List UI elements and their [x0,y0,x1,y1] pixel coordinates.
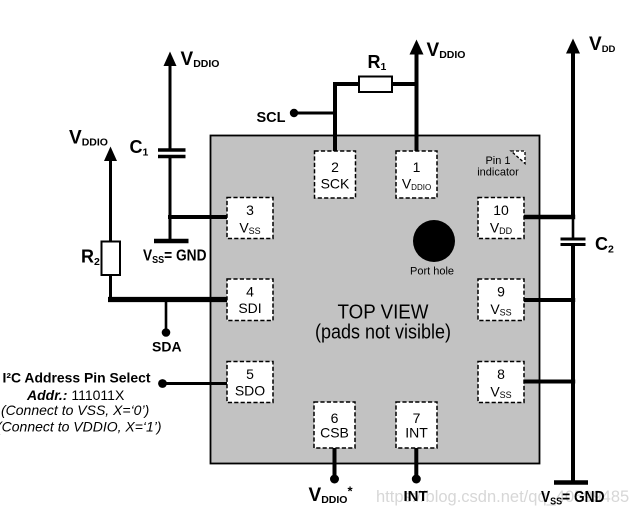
pin 6 CSB [314,402,355,448]
power VDDIO (pin 1 supply) [415,51,419,151]
svg-text:1: 1 [413,159,421,175]
pin 2 SCK [315,151,356,198]
svg-text:Addr.: 111011X: Addr.: 111011X [26,387,125,403]
pin 6 stub / node VDDIO* [333,448,337,477]
wire pin 8 [523,380,575,384]
svg-text:SDI: SDI [238,300,261,316]
pin 4 SDI [227,279,273,321]
pin 10 VDD [478,198,524,239]
ground VSS=GND (left) [154,239,189,243]
pin 5 SDO [227,362,273,403]
wire VDD to C2 [572,217,575,238]
wire R2 to pin 4 [109,275,112,302]
svg-text:5: 5 [246,366,254,382]
svg-text:2: 2 [331,159,339,175]
chip body (TOP VIEW) [211,136,540,464]
pin 8 VSS [478,362,524,403]
capacitor C1 [158,148,186,151]
svg-text:SCK: SCK [321,176,350,192]
svg-text:(pads not visible): (pads not visible) [315,321,451,344]
wire pin 9 [523,298,575,302]
ground VSS=GND (right) [554,480,588,484]
node SDA [165,300,168,331]
svg-text:SDO: SDO [235,383,265,399]
resistor R1 [359,77,392,93]
capacitor C2 [561,238,586,241]
wire R1 right lead [391,82,418,86]
svg-text:INT: INT [405,425,428,441]
power VDDIO (C1 branch) [169,63,172,149]
svg-text:8: 8 [497,366,505,382]
wire C2 to ground [571,246,575,481]
wire SCL to riser [294,112,336,115]
wire R1 left lead [333,82,360,86]
svg-text:(Connect to VDDIO, X=‘1’): (Connect to VDDIO, X=‘1’) [0,419,162,435]
svg-text:I²C Address Pin Select: I²C Address Pin Select [3,370,151,386]
pin 9 VSS [478,279,524,321]
port hole [413,220,455,262]
svg-text:INT: INT [404,488,428,505]
svg-text:Port hole: Port hole [410,266,454,278]
svg-text:CSB: CSB [320,425,349,441]
wire riser to pin 2 [333,84,337,151]
pin 7 stub / node INT [414,448,418,477]
pin 3 VSS [227,198,273,239]
svg-text:4: 4 [246,284,254,300]
pin 7 INT [396,402,437,448]
wire pin 10 to VDD [523,215,575,219]
svg-text:(Connect to VSS, X=‘0’): (Connect to VSS, X=‘0’) [1,402,149,418]
svg-text:SDA: SDA [152,339,182,355]
svg-text:9: 9 [497,284,505,300]
svg-text:indicator: indicator [477,167,519,179]
wire to pin 3 [168,215,229,219]
svg-text:SCL: SCL [257,110,286,126]
svg-text:Pin 1: Pin 1 [485,155,510,167]
svg-text:3: 3 [246,202,254,218]
wire C1 to ground [169,158,172,240]
pin 1 indicator [511,151,525,164]
node SCL [290,109,298,117]
power VDD (right) [571,50,575,219]
pin 1 VDDIO [396,151,437,198]
node / wire to pin 5 [158,379,167,388]
resistor R2 [102,242,121,276]
svg-text:10: 10 [493,202,509,218]
